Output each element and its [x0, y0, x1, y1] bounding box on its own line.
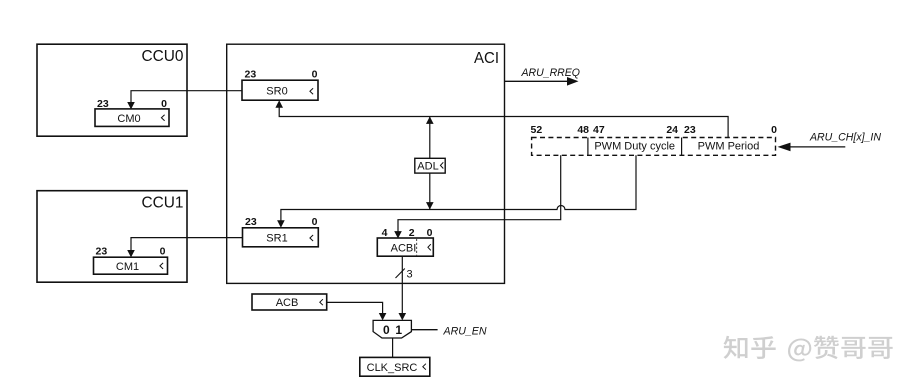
svg-text:PWM Duty cycle: PWM Duty cycle — [594, 140, 675, 152]
bit label 0 of CM1 — [160, 246, 166, 258]
register ACBI — [377, 238, 433, 256]
label ACI — [474, 50, 499, 67]
wire ARU_CH[x]_IN input — [778, 143, 846, 152]
wire ARU_RREQ output — [505, 77, 579, 86]
svg-text:ADL: ADL — [417, 161, 438, 173]
field label PWM Period — [698, 140, 760, 152]
bit label 23 — [684, 124, 696, 136]
svg-text:24: 24 — [666, 124, 678, 136]
svg-text:CCU0: CCU0 — [142, 48, 184, 65]
svg-text:0: 0 — [160, 246, 166, 258]
field label PWM Duty cycle — [594, 140, 675, 152]
svg-text:CM0: CM0 — [117, 113, 140, 125]
svg-text:3: 3 — [407, 269, 413, 281]
svg-text:0: 0 — [161, 98, 167, 110]
wire SR0 to CM0 — [127, 91, 242, 110]
svg-text:CLK_SRC: CLK_SRC — [367, 362, 418, 374]
svg-text:ACB: ACB — [276, 297, 299, 309]
svg-text:47: 47 — [593, 124, 605, 136]
svg-text:ARU_RREQ: ARU_RREQ — [521, 67, 581, 79]
svg-text:CCU1: CCU1 — [142, 195, 184, 212]
bit label 0 of ACBI — [427, 227, 433, 239]
bit label 23 of SR0 — [245, 69, 257, 81]
wire bits 52:48 to ACBI — [394, 155, 561, 238]
bit label 0 (ARU word) — [771, 124, 777, 136]
bit label 0 of SR1 — [312, 216, 318, 228]
svg-text:0: 0 — [312, 69, 318, 81]
bit label 52 — [531, 124, 543, 136]
box ACI — [227, 44, 505, 283]
svg-text:0: 0 — [771, 124, 777, 136]
svg-text:4: 4 — [382, 227, 388, 239]
box CCU1 — [37, 191, 187, 283]
mux CLK_SRC select — [373, 320, 411, 338]
register CM0 — [95, 109, 169, 127]
wire ACB to mux input 0 — [327, 302, 387, 320]
svg-text:SR0: SR0 — [266, 85, 287, 97]
register CLK_SRC — [360, 357, 430, 376]
bit label 47 — [593, 124, 605, 136]
svg-text:23: 23 — [684, 124, 696, 136]
svg-text:0: 0 — [312, 216, 318, 228]
bus width label 3 — [407, 269, 413, 281]
bit label 24 — [666, 124, 678, 136]
svg-text:1: 1 — [395, 323, 402, 337]
svg-text:48: 48 — [577, 124, 589, 136]
svg-text:0: 0 — [427, 227, 433, 239]
wire ADL double arrow — [426, 117, 434, 210]
svg-text:0: 0 — [383, 323, 390, 337]
bit label 23 of CM0 — [97, 98, 109, 110]
label CCU1 — [142, 195, 184, 212]
svg-text:ACI: ACI — [474, 50, 499, 67]
wire mux to CLK_SRC — [392, 338, 394, 357]
svg-text:23: 23 — [96, 246, 108, 258]
wire ACBI to mux input 1 with bus slash 3 — [396, 256, 407, 320]
svg-text:23: 23 — [245, 216, 257, 228]
label CCU0 — [142, 48, 184, 65]
bit label 4 of ACBI — [382, 227, 388, 239]
svg-text:ACBI: ACBI — [391, 242, 417, 254]
signal label ARU_RREQ — [521, 67, 581, 79]
bit label 48 — [577, 124, 589, 136]
bit label 23 of CM1 — [96, 246, 108, 258]
watermark 知乎 @赞哥哥 — [724, 336, 893, 362]
wire PWM Period to SR0 — [275, 100, 728, 137]
signal label ARU_CH[x]_IN — [809, 132, 881, 144]
svg-text:23: 23 — [245, 69, 257, 81]
register SR0 — [242, 80, 318, 100]
svg-text:SR1: SR1 — [266, 233, 287, 245]
bit label 23 of SR1 — [245, 216, 257, 228]
svg-text:52: 52 — [531, 124, 543, 136]
svg-text:CM1: CM1 — [116, 261, 139, 273]
svg-text:ARU_CH[x]_IN: ARU_CH[x]_IN — [809, 132, 881, 144]
dashed register ARU input word — [532, 138, 776, 156]
svg-text:PWM Period: PWM Period — [698, 140, 760, 152]
register SR1 — [243, 228, 319, 247]
svg-text:ARU_EN: ARU_EN — [443, 326, 487, 338]
svg-text:2: 2 — [409, 227, 415, 239]
bit label 0 of SR0 — [312, 69, 318, 81]
box CCU0 — [37, 44, 187, 136]
wire SR1 to CM1 — [127, 238, 242, 258]
wire PWM Duty cycle to SR1 (with hop over crossing) — [277, 155, 636, 227]
bit label 0 of CM0 — [161, 98, 167, 110]
wire ARU_EN select — [411, 329, 437, 331]
register CM1 — [94, 257, 168, 274]
svg-text:23: 23 — [97, 98, 109, 110]
signal label ARU_EN — [443, 326, 487, 338]
register ACB — [252, 294, 327, 310]
register ADL — [415, 158, 445, 173]
bit label 2 of ACBI — [409, 227, 415, 239]
